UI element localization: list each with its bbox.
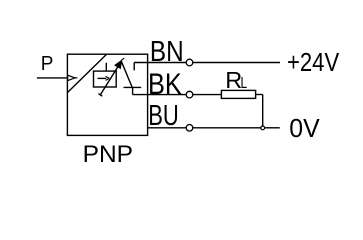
wire BN terminal to +24V xyxy=(193,62,280,64)
wire BU to terminal xyxy=(148,127,187,129)
transistor collector bar xyxy=(124,86,142,88)
resistor RL body xyxy=(221,90,255,98)
inner actuation arrow shaft xyxy=(98,77,107,79)
adjustment arrow head (filled) xyxy=(115,60,122,69)
wire junction to 0V xyxy=(265,127,280,129)
svg-text:0V: 0V xyxy=(289,113,320,143)
adjustment arrow tip flick xyxy=(122,58,125,60)
wire BK terminal to resistor xyxy=(193,94,222,96)
transistor right leg xyxy=(121,61,132,87)
svg-text:+24V: +24V xyxy=(287,47,340,77)
bracket top stub xyxy=(133,63,135,71)
stub on sensing box top xyxy=(105,63,107,71)
sensing element box xyxy=(94,71,117,87)
diagonal amplifier slash xyxy=(67,54,106,92)
wire BN inside to terminal xyxy=(134,62,186,64)
terminal circle BU xyxy=(186,125,193,132)
svg-text:P: P xyxy=(41,53,54,75)
wire BK inside to terminal xyxy=(133,94,187,96)
wire P input xyxy=(37,77,68,79)
wire BU terminal to junction xyxy=(193,127,261,129)
wire corner down to 0V junction xyxy=(262,95,264,127)
svg-text:PNP: PNP xyxy=(83,141,133,168)
svg-text:BN: BN xyxy=(150,36,184,68)
junction circle 0V xyxy=(261,126,265,130)
adjustment arrow shaft xyxy=(100,66,118,95)
P arrow tip stub xyxy=(75,77,78,79)
sensor body box U1 xyxy=(67,54,147,135)
adjustment arrow foot bar xyxy=(98,94,102,96)
svg-text:BU: BU xyxy=(148,100,179,132)
terminal circle BN xyxy=(186,59,193,66)
svg-text:BK: BK xyxy=(148,68,182,101)
P input arrowhead xyxy=(68,75,75,80)
wire resistor to corner xyxy=(256,94,263,96)
terminal circle BK xyxy=(186,91,193,98)
bracket bottom vertical xyxy=(132,87,134,94)
inner actuation arrow head xyxy=(106,76,110,80)
